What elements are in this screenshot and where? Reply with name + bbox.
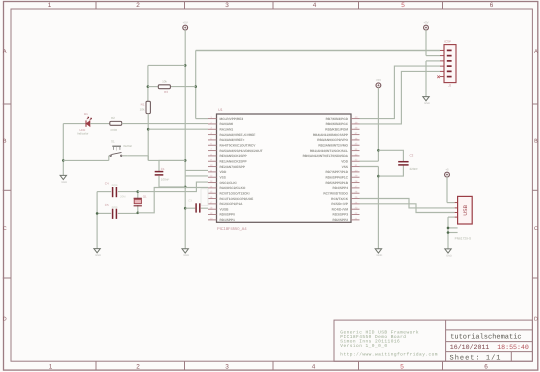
svg-text:RD2/SPP2: RD2/SPP2	[333, 219, 349, 223]
svg-text:3: 3	[210, 127, 212, 130]
svg-text:22pF: 22pF	[112, 206, 119, 209]
svg-text:MCLR/VPP/RE3: MCLR/VPP/RE3	[220, 117, 244, 121]
svg-text:27: 27	[355, 185, 358, 188]
svg-text:RC2/CCP1/P1A: RC2/CCP1/P1A	[220, 203, 243, 207]
svg-text:B: B	[534, 138, 538, 144]
svg-text:5: 5	[400, 362, 404, 370]
svg-text:Button: Button	[124, 145, 133, 149]
svg-text:RD3/SPP3: RD3/SPP3	[333, 213, 349, 217]
svg-text:1: 1	[210, 116, 212, 119]
svg-text:11: 11	[210, 169, 213, 172]
svg-text:8: 8	[210, 153, 212, 156]
svg-text:RD4/SPP4: RD4/SPP4	[333, 187, 349, 191]
svg-text:C1: C1	[161, 168, 165, 172]
svg-text:Version 1_0_0_0: Version 1_0_0_0	[340, 343, 387, 348]
svg-text:22pF: 22pF	[112, 184, 119, 187]
svg-text:GND: GND	[183, 254, 189, 257]
svg-text:RB0/AN12/INT0/FLT0/SDI/SDA: RB0/AN12/INT0/FLT0/SDI/SDA	[303, 155, 349, 159]
svg-text:D: D	[534, 316, 538, 322]
svg-text:37: 37	[355, 132, 358, 135]
svg-text:RA1/AN1: RA1/AN1	[220, 128, 234, 132]
svg-text:21: 21	[355, 217, 358, 220]
svg-text:RB1/AN10/INT1/SCK/SCL: RB1/AN10/INT1/SCK/SCL	[310, 149, 348, 153]
svg-text:GND: GND	[61, 181, 67, 184]
svg-text:RC1/T1OSI/CCP2/UOE: RC1/T1OSI/CCP2/UOE	[220, 197, 254, 201]
svg-text:OSC1/CLKI: OSC1/CLKI	[220, 181, 237, 185]
svg-text:Indicator: Indicator	[77, 132, 89, 136]
svg-text:S1: S1	[111, 140, 115, 144]
svg-text:39: 39	[355, 121, 358, 124]
svg-text:RE1/AN6/CK2SPP: RE1/AN6/CK2SPP	[220, 160, 248, 164]
svg-text:Q1: Q1	[143, 195, 147, 198]
svg-text:RD1/SPP1: RD1/SPP1	[220, 219, 236, 223]
svg-text:1: 1	[48, 1, 52, 9]
svg-text:+5V: +5V	[376, 79, 381, 82]
svg-text:+5: +5	[445, 168, 448, 171]
svg-text:470R: 470R	[110, 129, 118, 133]
svg-text:RA3/AN3/VREF+: RA3/AN3/VREF+	[220, 139, 245, 143]
svg-text:VDD: VDD	[341, 160, 348, 164]
svg-text:RD6/SPP6/P1C: RD6/SPP6/P1C	[325, 176, 348, 180]
svg-text:31: 31	[355, 164, 358, 167]
svg-text:9: 9	[210, 159, 212, 162]
svg-text:24: 24	[355, 201, 358, 204]
svg-text:RB2/AN8/INT2/VMO: RB2/AN8/INT2/VMO	[318, 144, 348, 148]
svg-text:3: 3	[225, 1, 229, 9]
svg-text:35: 35	[355, 143, 358, 146]
svg-text:34: 34	[355, 148, 358, 151]
svg-text:2: 2	[210, 121, 212, 124]
svg-text:A: A	[3, 49, 7, 55]
svg-text:+5V: +5V	[423, 21, 428, 24]
svg-text:10: 10	[210, 164, 213, 167]
svg-text:13: 13	[210, 180, 213, 183]
svg-text:tutorialschematic: tutorialschematic	[450, 333, 521, 341]
svg-text:2: 2	[136, 362, 140, 370]
svg-text:36: 36	[355, 137, 358, 140]
svg-text:7: 7	[210, 148, 212, 151]
svg-text:6: 6	[484, 362, 488, 370]
svg-text:R2: R2	[111, 116, 115, 120]
svg-text:5: 5	[401, 1, 405, 9]
svg-text:19: 19	[210, 212, 213, 215]
svg-text:R1: R1	[141, 103, 145, 107]
svg-text:RA6/OSC2/CLKO: RA6/OSC2/CLKO	[220, 187, 246, 191]
svg-text:16/10/2011: 16/10/2011	[450, 344, 490, 352]
svg-text:C: C	[3, 226, 7, 232]
svg-text:C3: C3	[188, 200, 192, 203]
svg-text:RC6/TX/CK: RC6/TX/CK	[331, 197, 348, 201]
svg-text:R3: R3	[164, 91, 168, 95]
svg-text:26: 26	[355, 191, 358, 194]
svg-text:VSS: VSS	[220, 176, 227, 180]
svg-text:40: 40	[355, 116, 358, 119]
svg-text:20M: 20M	[120, 195, 126, 198]
svg-text:RC4/D-/VM: RC4/D-/VM	[332, 208, 348, 212]
svg-text:RB5/KBI1/PGM: RB5/KBI1/PGM	[325, 128, 348, 132]
svg-text:33: 33	[355, 153, 358, 156]
svg-text:RE0/AN5/CK1SPP: RE0/AN5/CK1SPP	[220, 155, 248, 159]
svg-text:14: 14	[210, 185, 213, 188]
svg-text:GND: GND	[424, 102, 430, 105]
svg-text:C2: C2	[410, 154, 414, 158]
svg-text:VSS: VSS	[342, 165, 349, 169]
svg-text:Sheet: 1/1: Sheet: 1/1	[450, 354, 502, 362]
svg-text:25: 25	[355, 196, 358, 199]
svg-text:32: 32	[355, 159, 358, 162]
svg-text:VDD: VDD	[220, 171, 227, 175]
svg-text:D1: D1	[84, 112, 88, 116]
svg-text:29: 29	[355, 175, 358, 178]
svg-text:RC5/D+/VP: RC5/D+/VP	[331, 203, 348, 207]
svg-text:LED: LED	[80, 128, 86, 132]
svg-text:23: 23	[355, 207, 358, 210]
svg-text:4: 4	[210, 132, 212, 135]
svg-text:3: 3	[225, 362, 229, 370]
svg-text:RA0/AN0: RA0/AN0	[220, 123, 234, 127]
svg-text:C5: C5	[105, 204, 109, 208]
svg-text:GND: GND	[446, 254, 452, 257]
svg-text:RD7/SPP7/P1D: RD7/SPP7/P1D	[325, 171, 348, 175]
svg-text:GND: GND	[377, 254, 383, 257]
svg-text:16: 16	[210, 196, 213, 199]
svg-text:RB6/KBI2/PGC: RB6/KBI2/PGC	[326, 123, 349, 127]
svg-text:J2: J2	[448, 84, 452, 88]
svg-text:15: 15	[210, 191, 213, 194]
svg-text:RA4/T0CKI/C1OUT/RCV: RA4/T0CKI/C1OUT/RCV	[220, 144, 256, 148]
svg-text:6: 6	[210, 143, 212, 146]
svg-text:GND: GND	[95, 254, 101, 257]
svg-text:28: 28	[355, 180, 358, 183]
svg-text:http://www.waitingforfriday.co: http://www.waitingforfriday.com	[340, 352, 438, 357]
svg-text:RB4/AN11/KBI0/CSSPP: RB4/AN11/KBI0/CSSPP	[313, 133, 349, 137]
svg-text:RE2/AN7/OESPP: RE2/AN7/OESPP	[220, 165, 246, 169]
svg-text:+5V: +5V	[183, 21, 188, 24]
svg-text:100nF: 100nF	[161, 178, 170, 182]
svg-text:6: 6	[490, 1, 494, 9]
svg-text:RC0/T1OSO/T13CKI: RC0/T1OSO/T13CKI	[220, 192, 250, 196]
svg-text:RD0/SPP0: RD0/SPP0	[220, 213, 236, 217]
svg-text:38: 38	[355, 127, 358, 130]
svg-text:C: C	[534, 226, 538, 232]
svg-text:USB: USB	[463, 205, 469, 216]
svg-text:RD5/SPP5/P1B: RD5/SPP5/P1B	[325, 181, 348, 185]
svg-text:RC7/RX/DT/SDO: RC7/RX/DT/SDO	[323, 192, 348, 196]
svg-text:5: 5	[210, 137, 212, 140]
svg-text:U1: U1	[218, 108, 223, 113]
svg-text:C4: C4	[105, 182, 109, 186]
svg-text:A: A	[534, 49, 538, 55]
svg-text:RA5/AN4/SS/HLVDIN/C2OUT: RA5/AN4/SS/HLVDIN/C2OUT	[220, 149, 263, 153]
svg-text:RB7/KBI3/PGD: RB7/KBI3/PGD	[326, 117, 349, 121]
svg-text:PN61729-S: PN61729-S	[455, 237, 472, 241]
svg-text:D: D	[3, 316, 7, 322]
svg-text:1: 1	[49, 362, 53, 370]
svg-text:ICSP: ICSP	[444, 40, 451, 44]
svg-text:4: 4	[313, 1, 317, 9]
svg-text:RB3/AN9/CCP2/VPO: RB3/AN9/CCP2/VPO	[317, 139, 348, 143]
svg-text:4: 4	[312, 362, 316, 370]
svg-text:VUSB: VUSB	[220, 208, 229, 212]
svg-text:220nF: 220nF	[410, 167, 419, 171]
svg-text:17: 17	[210, 201, 213, 204]
svg-text:30: 30	[355, 169, 358, 172]
svg-text:PIC18F4550_A4: PIC18F4550_A4	[217, 227, 247, 232]
svg-text:2: 2	[136, 1, 140, 9]
svg-text:18:55:40: 18:55:40	[497, 344, 529, 352]
svg-text:22: 22	[355, 212, 358, 215]
svg-text:10k: 10k	[140, 108, 145, 112]
svg-text:10k: 10k	[162, 80, 167, 84]
svg-text:18: 18	[210, 207, 213, 210]
svg-text:B: B	[3, 138, 7, 144]
svg-text:20: 20	[210, 217, 213, 220]
svg-text:12: 12	[210, 175, 213, 178]
svg-text:RA2/AN2/VREF-/CVREF: RA2/AN2/VREF-/CVREF	[220, 133, 256, 137]
